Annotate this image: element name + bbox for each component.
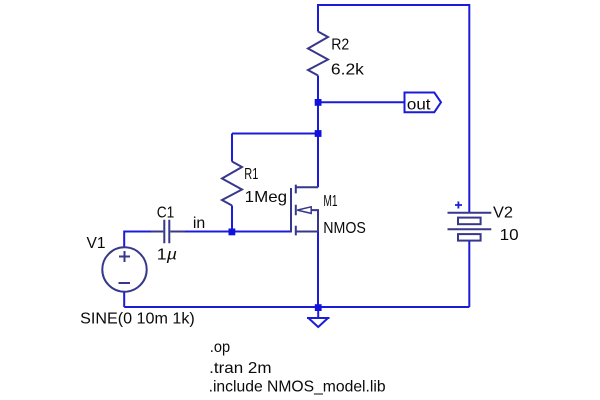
svg-text:6.2k: 6.2k — [331, 61, 365, 78]
svg-text:.tran 2m: .tran 2m — [209, 360, 271, 377]
svg-text:1Meg: 1Meg — [245, 189, 287, 206]
svg-text:out: out — [407, 96, 431, 113]
svg-text:.op: .op — [210, 339, 230, 356]
svg-text:.include NMOS_model.lib: .include NMOS_model.lib — [209, 379, 386, 396]
svg-text:V1: V1 — [87, 235, 106, 252]
svg-text:C1: C1 — [157, 204, 175, 221]
svg-text:NMOS: NMOS — [323, 220, 366, 237]
svg-text:SINE(0 10m 1k): SINE(0 10m 1k) — [80, 311, 195, 328]
svg-text:V2: V2 — [493, 204, 513, 221]
svg-text:1µ: 1µ — [157, 247, 177, 264]
svg-text:in: in — [193, 215, 205, 232]
svg-text:10: 10 — [500, 227, 519, 244]
svg-text:R1: R1 — [244, 166, 258, 183]
svg-text:M1: M1 — [323, 193, 337, 210]
svg-text:R2: R2 — [331, 37, 349, 54]
